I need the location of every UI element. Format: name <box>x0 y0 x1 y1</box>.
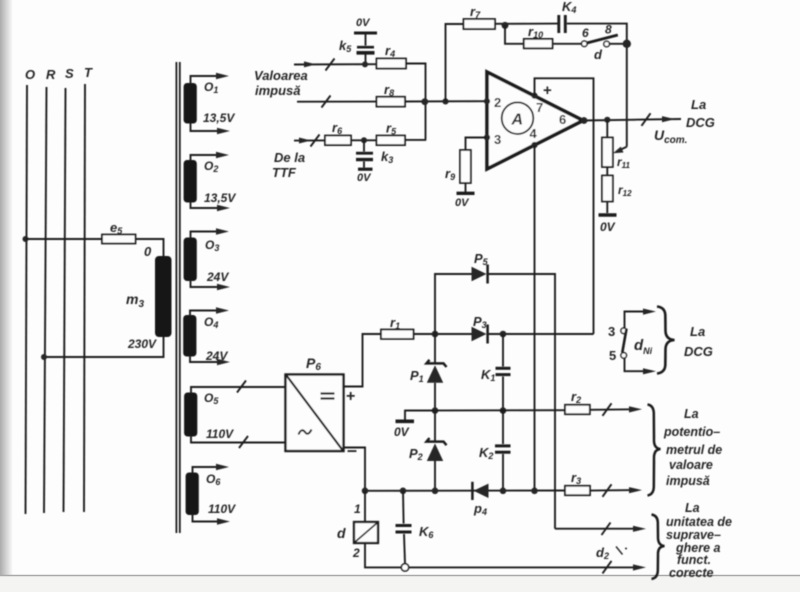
node label Valoarea impusa <box>254 68 308 98</box>
resistor r12 <box>602 167 632 202</box>
winding O2 <box>184 152 237 211</box>
contact d label <box>594 47 603 62</box>
wire r7 to K4 <box>495 23 558 25</box>
svg-text:0V: 0V <box>455 197 470 209</box>
svg-text:13,5V: 13,5V <box>203 111 235 125</box>
diode P3 <box>472 314 488 344</box>
junction K1 0V <box>500 407 507 414</box>
junction bus r8 <box>421 98 428 105</box>
svg-text:0V: 0V <box>394 425 410 439</box>
resistor r3 <box>565 470 590 495</box>
svg-text:2: 2 <box>494 95 501 110</box>
pin 7 <box>531 93 543 115</box>
scan bottom rule <box>0 576 800 592</box>
wire r10 to contact <box>553 43 582 45</box>
capacitor k3 <box>356 140 393 167</box>
wire r3 arrow out <box>590 484 642 497</box>
winding O4 <box>183 307 230 365</box>
arrow tap into r11 <box>613 147 627 154</box>
svg-text:T: T <box>84 65 93 80</box>
svg-text:110V: 110V <box>206 427 234 441</box>
pin 6 label <box>559 112 566 127</box>
wire r1 to P3 <box>414 333 473 335</box>
junction K6 top <box>400 488 407 495</box>
wire r7 drop to pin2 node <box>446 24 464 101</box>
node label La DCG dNi <box>684 324 713 359</box>
junction P3/K1 <box>500 331 507 338</box>
wire 0V rail to r2 <box>405 409 565 411</box>
svg-text:metrul de: metrul de <box>666 443 722 457</box>
junction pin4 drop <box>531 488 538 495</box>
contact d blade <box>587 35 618 43</box>
svg-text:0V: 0V <box>357 172 372 184</box>
resistor r8 <box>377 82 406 107</box>
wire r5 to bus <box>405 139 426 141</box>
resistor r5 <box>377 121 406 146</box>
transformer core <box>176 62 179 533</box>
pin 3 <box>484 132 501 147</box>
brace potentiometrul <box>648 405 661 496</box>
pin 1 label <box>354 502 361 516</box>
capacitor K2 <box>479 411 511 491</box>
svg-text:La: La <box>690 324 705 339</box>
svg-text:TTF: TTF <box>272 165 297 180</box>
svg-text:funct.: funct. <box>677 553 711 567</box>
wire P5 drop to arrow <box>555 523 646 536</box>
svg-text:potentio–: potentio– <box>663 425 720 439</box>
P6 plus terminal <box>346 388 355 405</box>
pin 2 label <box>352 546 360 560</box>
junction r7 drop <box>442 98 448 104</box>
wire contact to drop <box>609 43 626 45</box>
svg-text:1: 1 <box>354 502 361 516</box>
winding O6 <box>186 464 237 525</box>
ground 0V above k5 <box>354 17 377 46</box>
junction on rail R <box>41 354 47 360</box>
svg-text:d: d <box>594 47 603 62</box>
winding m3 <box>126 256 172 351</box>
junction k3 <box>361 137 367 143</box>
converter P6 <box>286 355 344 451</box>
svg-text:A: A <box>511 112 524 129</box>
op-amp A triangle <box>487 72 583 169</box>
svg-text:O: O <box>25 67 35 82</box>
svg-text:d: d <box>337 525 346 541</box>
svg-text:unitatea de: unitatea de <box>666 515 732 529</box>
pin 2 <box>484 95 501 110</box>
resistor r4 <box>377 43 407 69</box>
svg-text:7: 7 <box>536 100 543 115</box>
svg-text:2: 2 <box>352 546 360 560</box>
wire r3 minus rail <box>365 490 565 492</box>
node S label <box>65 66 74 81</box>
svg-text:0: 0 <box>144 244 152 259</box>
wire rail T <box>84 84 85 512</box>
resistor r10 <box>524 24 553 48</box>
node O label <box>25 67 35 82</box>
svg-text:DCG: DCG <box>684 344 713 359</box>
contact d2 label <box>596 545 627 561</box>
wire pin3 to r9 <box>466 138 488 151</box>
node label La unitatea <box>666 501 732 580</box>
junction output r11 <box>604 117 610 123</box>
svg-text:DCG: DCG <box>686 115 715 130</box>
resistor r7 <box>464 4 496 29</box>
svg-text:13,5V: 13,5V <box>204 191 236 205</box>
resistor r9 <box>445 150 471 183</box>
resistor r6 <box>325 120 351 145</box>
node label De la TTF <box>272 150 305 180</box>
svg-text:4: 4 <box>530 126 538 141</box>
op-amp A circle <box>502 102 534 134</box>
node 0 label <box>144 244 152 259</box>
node label La DCG output <box>686 97 715 130</box>
junction minus rail left <box>362 488 369 495</box>
wire K4 to right drop <box>567 24 627 147</box>
op-amp plus sign <box>543 82 552 99</box>
zener P2 <box>409 411 447 491</box>
capacitor K1 <box>481 334 511 411</box>
svg-text:La: La <box>685 501 700 515</box>
wire pin4 drop <box>534 145 536 491</box>
svg-text:230V: 230V <box>127 337 157 351</box>
ground 0V below r12 <box>599 202 617 235</box>
wire input Valoarea impusa line 1 <box>294 59 377 71</box>
svg-text:0V: 0V <box>356 17 371 29</box>
wire P3 to feedback drop <box>489 333 594 335</box>
junction r10 tap <box>502 22 509 29</box>
junction on rail O <box>23 236 29 242</box>
wire input De la TTF line 3 <box>294 135 325 147</box>
brace dNi <box>657 307 675 374</box>
wire pin7 feedback box <box>535 78 594 334</box>
svg-text:8: 8 <box>605 23 612 37</box>
svg-text:0V: 0V <box>600 220 616 234</box>
svg-text:5: 5 <box>609 348 616 363</box>
zener P1 <box>410 334 447 411</box>
junction K2 bottom <box>500 488 507 495</box>
svg-text:R: R <box>46 67 56 82</box>
resistor r1 <box>381 315 414 339</box>
svg-text:De la: De la <box>274 150 305 165</box>
svg-text:110V: 110V <box>208 502 236 516</box>
wire d box to bottom line <box>365 543 637 567</box>
wire e5 to m3 <box>136 239 164 256</box>
wire r6 to r5 <box>351 139 377 141</box>
wire rail O <box>26 85 28 514</box>
diode P4 <box>472 482 488 517</box>
svg-text:24V: 24V <box>206 270 229 284</box>
wire rail S <box>64 88 66 512</box>
ground 0V below k3 <box>357 169 373 184</box>
wire P6 minus down <box>344 448 366 491</box>
svg-text:La: La <box>684 407 699 421</box>
svg-text:corecte: corecte <box>669 566 714 580</box>
winding O5 <box>184 381 285 449</box>
svg-text:+: + <box>543 82 552 99</box>
svg-text:impusă: impusă <box>255 83 301 98</box>
junction P1 0V <box>432 407 439 414</box>
svg-text:3: 3 <box>608 324 615 339</box>
junction k5/r4 <box>362 61 368 67</box>
node R label <box>46 67 56 82</box>
capacitor k5 <box>339 38 375 65</box>
wire P5 branch up <box>435 274 472 334</box>
svg-text:6: 6 <box>559 112 566 127</box>
contact d box <box>337 491 378 543</box>
pin 4 <box>530 126 538 148</box>
wire e5 line <box>26 238 103 240</box>
wire m3 to rail R <box>44 337 164 357</box>
diode P5 <box>472 251 489 284</box>
capacitor K4 <box>559 0 577 33</box>
wire P6 plus to r1 <box>344 334 382 387</box>
svg-text:impusă: impusă <box>666 474 710 488</box>
svg-text:Valoarea: Valoarea <box>254 68 308 83</box>
svg-text:La: La <box>691 97 706 112</box>
svg-text:24V: 24V <box>205 349 228 363</box>
capacitor K6 <box>396 491 435 564</box>
P6 minus terminal <box>347 440 357 460</box>
wire rail R <box>44 87 47 513</box>
wire P5 to right drop <box>488 274 555 529</box>
ground 0V below r9 <box>455 183 475 209</box>
ground 0V middle <box>394 411 435 439</box>
terminal circle K6 bottom <box>401 564 408 571</box>
node T label <box>84 65 93 80</box>
resistor r2 <box>565 389 590 414</box>
fuse e5 <box>102 220 136 244</box>
junction P2 bottom <box>432 488 439 495</box>
junction r1/P1/P5 <box>432 331 439 338</box>
contact dNi <box>608 309 656 375</box>
svg-text:+: + <box>346 388 355 405</box>
wire r4 to bus <box>406 64 426 140</box>
node label La potentiometrul <box>663 407 722 488</box>
node label U com <box>654 127 687 146</box>
op-amp output wire <box>581 113 681 126</box>
svg-text:S: S <box>65 66 74 81</box>
wire input line 2 to pin 2 <box>297 96 487 108</box>
wire r10 branch <box>505 25 524 43</box>
svg-text:suprave–: suprave– <box>666 528 721 542</box>
svg-text:3: 3 <box>494 132 501 147</box>
winding O1 <box>184 73 236 134</box>
brace unitatea <box>652 515 665 580</box>
junction K4 drop <box>623 40 631 48</box>
winding O3 <box>184 228 230 290</box>
contact d terminal 8 <box>604 23 612 47</box>
svg-text:–: – <box>347 440 357 460</box>
wire bottom arrow <box>603 561 647 574</box>
wire r2 arrow out <box>590 403 642 416</box>
svg-text:valoare: valoare <box>669 458 713 472</box>
resistor r11 <box>602 120 631 170</box>
svg-text:6: 6 <box>582 26 589 40</box>
contact d terminal 6 <box>582 26 590 47</box>
